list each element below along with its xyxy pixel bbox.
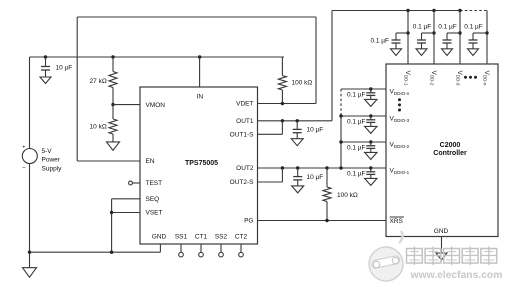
label pin OUT2-S	[230, 179, 255, 186]
wire OUT1-S	[258, 121, 283, 135]
svg-text:SEQ: SEQ	[146, 196, 160, 203]
svg-text:Power: Power	[42, 157, 61, 164]
ground main supply	[23, 252, 37, 277]
svg-text:VMON: VMON	[146, 102, 166, 109]
svg-text:EN: EN	[146, 158, 155, 165]
svg-text:OUT1-S: OUT1-S	[230, 132, 255, 139]
svg-text:100 kΩ: 100 kΩ	[337, 192, 358, 199]
node PG/R4	[325, 219, 328, 222]
node bus/bottom rail	[110, 251, 113, 254]
pin SS1 stub+circle	[179, 244, 184, 257]
wire VDD-2 vertical	[433, 11, 435, 65]
label pin TEST	[146, 180, 163, 187]
label pin VDDIO-3	[390, 116, 410, 123]
wire IN pin	[199, 57, 201, 87]
wire VDD-3 vertical	[459, 11, 461, 65]
label U2 C2000 Controller	[433, 142, 467, 157]
wire VDDIO-2 row	[341, 141, 386, 143]
wire EN horizontal	[77, 160, 140, 162]
wire VMON	[113, 104, 140, 106]
label pin VDD-n	[482, 71, 489, 86]
svg-text:0.1 µF: 0.1 µF	[464, 23, 483, 30]
label pin OUT1	[236, 118, 254, 125]
label 5-V Power Supply	[42, 148, 63, 172]
label pin CT1	[195, 233, 208, 240]
svg-text:XRS: XRS	[390, 218, 404, 225]
label pin GND C2000	[434, 228, 449, 235]
capacitor C 0.1uF VDDIO-3	[365, 116, 377, 133]
node rail/C1	[44, 55, 47, 58]
svg-text:SS2: SS2	[215, 233, 228, 240]
svg-text:GND: GND	[434, 228, 449, 235]
svg-text:VSET: VSET	[146, 210, 163, 217]
label pin SS1	[175, 233, 188, 240]
node OUT1/OUT1-S	[281, 119, 284, 122]
label pin VDD-1	[403, 71, 410, 86]
node VDD-n/cap stub	[473, 31, 489, 34]
svg-text:Controller: Controller	[433, 150, 467, 157]
wire C2000 GND	[441, 237, 443, 254]
capacitor C2 10 uF OUT1	[291, 121, 303, 146]
wire VDD bus dashed	[460, 10, 487, 12]
svg-text:0.1 µF: 0.1 µF	[438, 23, 457, 30]
label pin VDET	[236, 101, 253, 108]
svg-text:CT1: CT1	[195, 233, 208, 240]
wire VDDIO bus	[340, 116, 342, 168]
wire OUT2-S	[258, 168, 283, 182]
node VDDIO bus row 2	[339, 140, 342, 143]
svg-text:27 kΩ: 27 kΩ	[90, 78, 107, 85]
node rail/IN	[198, 55, 201, 58]
svg-text:0.1 µF: 0.1 µF	[347, 91, 366, 98]
svg-text:www.elecfans.com: www.elecfans.com	[410, 270, 503, 281]
voltage source V1 5-V Power Supply	[22, 145, 37, 172]
node OUT2/R4	[325, 166, 328, 169]
label 0.1 uF VDDIO-3	[347, 118, 366, 125]
label C2 10 uF	[307, 127, 324, 134]
label pin VDD-3	[455, 71, 462, 86]
svg-text:OUT2-S: OUT2-S	[230, 179, 255, 186]
svg-text:Supply: Supply	[42, 165, 63, 172]
node VDDIO bus row 3	[339, 114, 342, 117]
svg-text:0.1 µF: 0.1 µF	[347, 118, 366, 125]
wire VDDIO-1 row	[341, 167, 386, 169]
wire OUT1	[258, 120, 333, 122]
label 0.1 uF VDDIO-n	[347, 91, 366, 98]
svg-text:SS1: SS1	[175, 233, 188, 240]
svg-text:0.1 µF: 0.1 µF	[370, 37, 389, 44]
label U1 TPS75005	[185, 160, 218, 167]
label R3 100 kOhm	[292, 80, 313, 87]
label 0.1 uF VDD-3	[438, 23, 457, 30]
capacitor C 0.1uF VDD-2	[416, 33, 427, 56]
wire SEQ	[112, 198, 140, 200]
svg-text:OUT2: OUT2	[236, 165, 254, 172]
op IC U2 C2000 box	[386, 64, 498, 237]
dots between VDDIO-n and VDDIO-3	[398, 98, 401, 111]
svg-text:0.1 µF: 0.1 µF	[413, 23, 432, 30]
svg-text:10 µF: 10 µF	[56, 64, 73, 71]
svg-text:5-V: 5-V	[42, 148, 53, 155]
svg-text:10 µF: 10 µF	[307, 127, 324, 134]
label pin IN	[197, 94, 204, 101]
label R1 27 kOhm	[90, 78, 107, 85]
label 0.1 uF VDD-2	[413, 23, 432, 30]
node VDD bus pin 3	[458, 9, 461, 12]
svg-text:10 kΩ: 10 kΩ	[90, 123, 107, 130]
wire bottom ground rail	[30, 251, 161, 253]
node VDDIO-3/cap	[369, 114, 372, 117]
node OUT2/C3	[296, 166, 299, 169]
node VDD-2/cap stub	[422, 31, 436, 34]
node junction supply/ground	[28, 251, 31, 254]
label pin SEQ	[146, 196, 160, 203]
watermark elecfans logo and text	[369, 231, 502, 281]
node VDD-1/cap stub	[396, 31, 410, 34]
label R2 10 kOhm	[90, 123, 107, 130]
svg-text:TEST: TEST	[146, 180, 163, 187]
wire VDET vertical	[315, 17, 317, 104]
wire VDET horizontal	[258, 103, 317, 105]
label pin OUT2	[236, 165, 254, 172]
label 0.1 uF VDDIO-2	[347, 144, 366, 151]
svg-text:10 µF: 10 µF	[307, 174, 324, 181]
node VDD bus pin 2	[432, 9, 435, 12]
node VDD-3/cap stub	[447, 31, 462, 34]
label pin CT2	[235, 233, 248, 240]
wire VDD bus top	[332, 10, 460, 12]
capacitor C 0.1uF VDD-n	[468, 33, 479, 56]
node OUT2/OUT2-S	[281, 166, 284, 169]
node VDET/R3	[281, 102, 284, 105]
resistor R2 10 kOhm	[109, 105, 117, 142]
label pin VDD-2	[429, 71, 436, 86]
label R4 100 kOhm	[337, 192, 358, 199]
wire VDDIO-n row	[341, 88, 386, 90]
capacitor C 0.1uF VDDIO-n	[365, 89, 377, 106]
label pin PG	[244, 218, 253, 225]
capacitor C1 10 uF input	[40, 57, 51, 84]
label pin EN	[146, 158, 155, 165]
label 0.1 uF VDDIO-1	[347, 170, 366, 177]
node VDDIO bus row 1	[339, 166, 342, 169]
capacitor C 0.1uF VDDIO-2	[365, 142, 377, 159]
svg-text:IN: IN	[197, 94, 204, 101]
node VDDIO-2/cap	[369, 140, 372, 143]
node VDD bus pin 4	[0, 0, 1, 1]
wire VDD-1 vertical	[407, 11, 409, 65]
node rail/R1	[111, 55, 114, 58]
wire VDDIO-3 row	[341, 115, 386, 117]
node R1/R2/VMON	[111, 103, 114, 106]
capacitor C 0.1uF VDD-3	[442, 33, 453, 56]
capacitor C 0.1uF VDD-1	[391, 33, 402, 56]
label C3 10 uF	[307, 174, 324, 181]
wire supply rail 5V top	[30, 56, 285, 58]
ground R2	[107, 142, 120, 150]
wire PG to XRS	[258, 220, 387, 222]
label pin VDDIO-n	[390, 89, 410, 96]
wire OUT1 to VDD bus	[331, 11, 333, 121]
op IC U1 TPS75005 box	[140, 87, 258, 244]
svg-text:PG: PG	[244, 218, 253, 225]
svg-text:CT2: CT2	[235, 233, 248, 240]
wire source - to bottom rail	[29, 164, 31, 253]
wire GND pin to rail	[159, 244, 161, 252]
node VDDIO-1/cap	[369, 166, 372, 169]
svg-text:C2000: C2000	[440, 142, 461, 149]
label pin GND	[152, 233, 167, 240]
pin SS2 stub+circle	[219, 244, 224, 257]
resistor R1 27 kOhm	[109, 57, 117, 105]
node VDD bus pin 1	[406, 9, 409, 12]
resistor R4 100 kOhm pull-up	[323, 168, 331, 221]
label 0.1 uF VDD-1	[370, 37, 389, 44]
capacitor C 0.1uF VDDIO-1	[365, 168, 377, 185]
wire EN bus top	[77, 16, 316, 18]
dots between VDD-3 and VDD-n	[464, 76, 477, 79]
wire OUT2 to VDDIO-1	[258, 167, 387, 169]
pin CT1 stub+circle	[199, 244, 204, 257]
label C1 10 uF	[56, 64, 73, 71]
label pin XRS with overline	[390, 217, 405, 225]
pin TEST open circle	[129, 181, 140, 185]
svg-text:VDET: VDET	[236, 101, 253, 108]
svg-text:+: +	[22, 145, 25, 151]
svg-text:0.1 µF: 0.1 µF	[347, 144, 366, 151]
node VSET junction	[110, 211, 113, 214]
svg-text:100 kΩ: 100 kΩ	[292, 80, 313, 87]
capacitor C3 10 uF OUT2	[292, 168, 304, 193]
label pin VDDIO-2	[390, 142, 410, 149]
wire VSET	[112, 212, 140, 214]
wire EN vertical	[76, 17, 78, 161]
wire VDD-n vertical	[486, 11, 488, 65]
svg-text:−: −	[22, 165, 26, 171]
label pin SS2	[215, 233, 228, 240]
label pin VDDIO-1	[390, 168, 410, 175]
label 0.1 uF VDD-n	[464, 23, 483, 30]
node OUT1/C2	[296, 119, 299, 122]
node VDDIO-n/cap	[369, 87, 372, 90]
ground C2000	[436, 253, 447, 260]
svg-text:0.1 µF: 0.1 µF	[347, 170, 366, 177]
wire supply vertical from rail to source +	[29, 57, 31, 149]
wire SEQ/VSET bus	[111, 199, 113, 252]
svg-text:OUT1: OUT1	[236, 118, 254, 125]
resistor R3 100 kOhm	[278, 57, 286, 104]
wire VDDIO bus dashed	[340, 89, 342, 116]
svg-text:GND: GND	[152, 233, 167, 240]
label pin OUT1-S	[230, 132, 255, 139]
svg-text:TPS75005: TPS75005	[185, 160, 218, 167]
pin CT2 stub+circle	[239, 244, 244, 257]
label pin VMON	[146, 102, 166, 109]
label pin VSET	[146, 210, 163, 217]
